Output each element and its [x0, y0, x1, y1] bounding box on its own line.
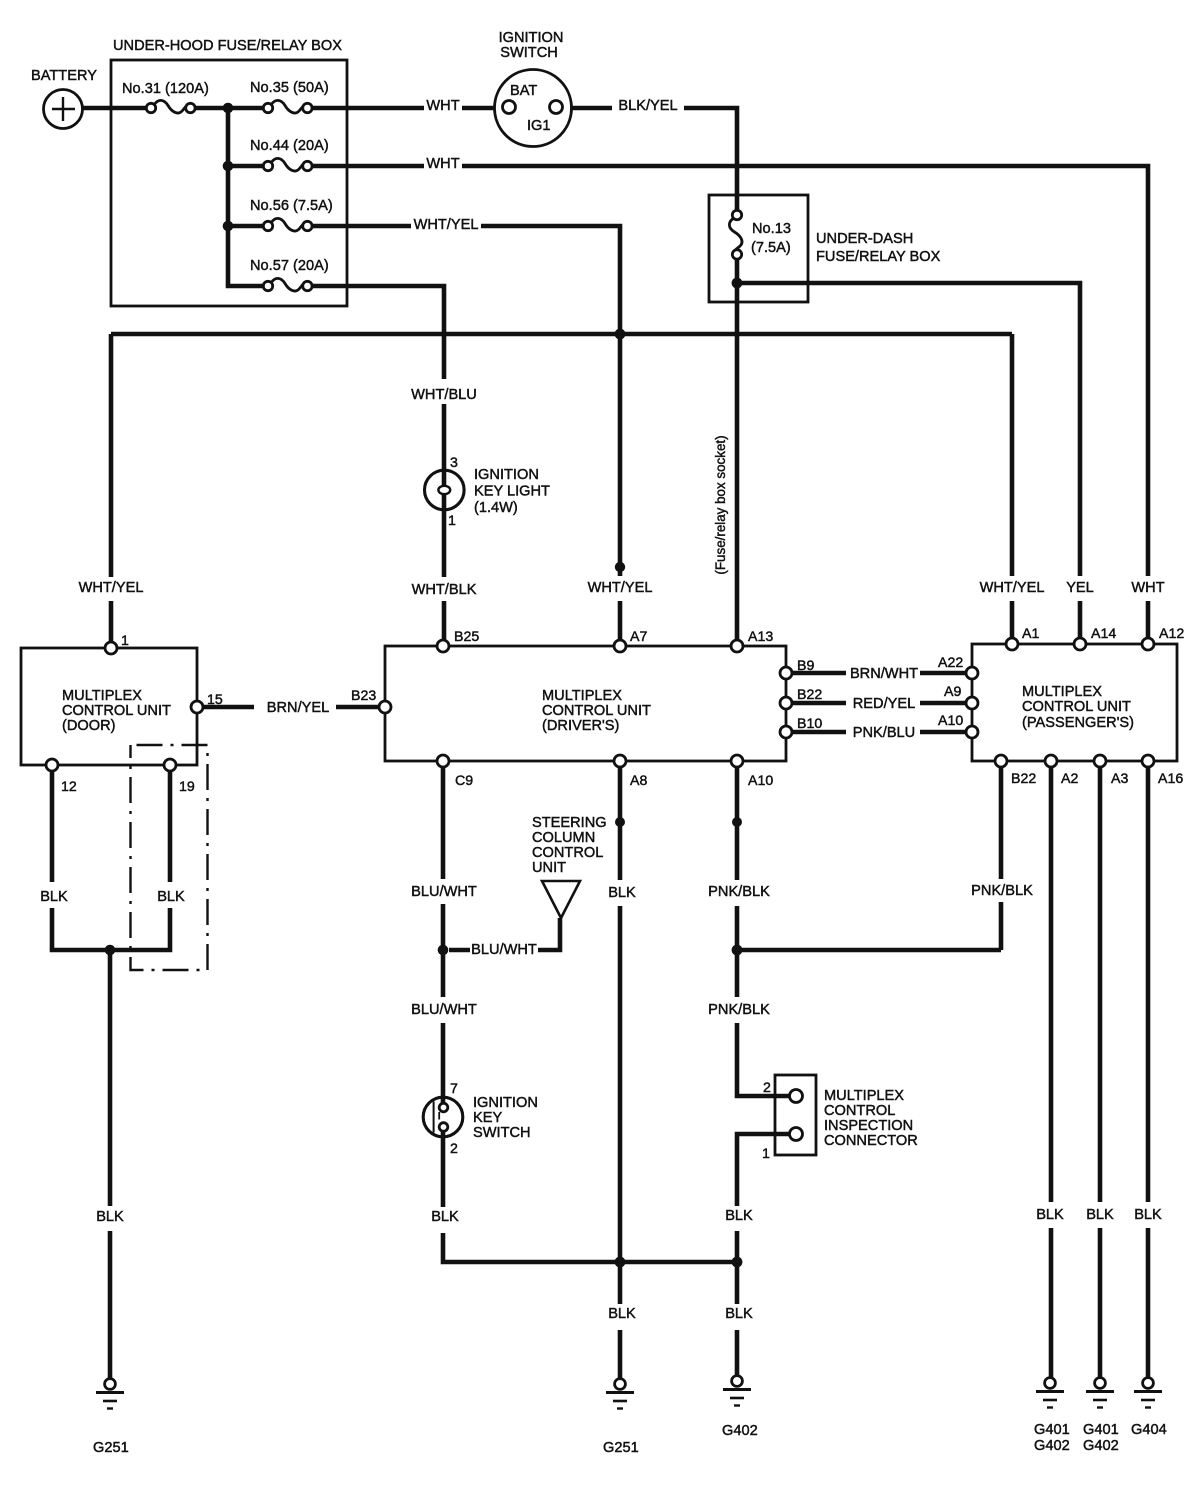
- svg-text:PNK/BLK: PNK/BLK: [708, 884, 770, 900]
- svg-text:12: 12: [61, 779, 77, 795]
- svg-text:A13: A13: [748, 629, 773, 645]
- svg-text:G402: G402: [1083, 1438, 1119, 1454]
- svg-text:No.44 (20A): No.44 (20A): [250, 138, 329, 154]
- svg-text:No.56 (7.5A): No.56 (7.5A): [250, 198, 333, 214]
- svg-text:No.35 (50A): No.35 (50A): [250, 80, 329, 96]
- svg-text:BLK: BLK: [608, 1306, 636, 1322]
- svg-text:KEY: KEY: [473, 1110, 502, 1126]
- svg-text:WHT/YEL: WHT/YEL: [79, 580, 144, 596]
- svg-text:STEERING: STEERING: [532, 815, 607, 831]
- svg-text:UNDER-HOOD FUSE/RELAY BOX: UNDER-HOOD FUSE/RELAY BOX: [113, 38, 342, 54]
- svg-text:IGNITION: IGNITION: [473, 1095, 538, 1111]
- svg-text:G401: G401: [1034, 1422, 1070, 1438]
- svg-text:No.57 (20A): No.57 (20A): [250, 258, 329, 274]
- svg-text:PNK/BLK: PNK/BLK: [971, 883, 1033, 899]
- svg-text:A16: A16: [1158, 771, 1183, 787]
- svg-text:MULTIPLEX: MULTIPLEX: [1022, 684, 1102, 700]
- svg-text:CONTROL UNIT: CONTROL UNIT: [1022, 699, 1131, 715]
- svg-text:2: 2: [763, 1080, 771, 1096]
- svg-text:UNDER-DASH: UNDER-DASH: [816, 231, 913, 247]
- svg-text:PNK/BLU: PNK/BLU: [853, 725, 915, 741]
- svg-text:WHT/YEL: WHT/YEL: [980, 580, 1045, 596]
- svg-text:BLK: BLK: [608, 885, 636, 901]
- svg-text:A1: A1: [1022, 626, 1039, 642]
- svg-text:G251: G251: [603, 1440, 639, 1456]
- svg-text:CONTROL: CONTROL: [532, 845, 603, 861]
- svg-text:BRN/YEL: BRN/YEL: [267, 700, 329, 716]
- svg-text:CONTROL UNIT: CONTROL UNIT: [542, 703, 651, 719]
- svg-text:WHT: WHT: [1131, 580, 1164, 596]
- svg-text:B22: B22: [797, 687, 822, 703]
- svg-text:CONTROL: CONTROL: [824, 1103, 895, 1119]
- svg-text:BLU/WHT: BLU/WHT: [411, 1002, 477, 1018]
- svg-text:BLU/WHT: BLU/WHT: [471, 942, 537, 958]
- svg-text:B25: B25: [454, 629, 479, 645]
- svg-text:1: 1: [448, 513, 456, 529]
- svg-text:C9: C9: [455, 773, 473, 789]
- svg-text:CONNECTOR: CONNECTOR: [824, 1133, 918, 1149]
- svg-text:MULTIPLEX: MULTIPLEX: [542, 688, 622, 704]
- svg-text:SWITCH: SWITCH: [473, 1125, 531, 1141]
- svg-text:BRN/WHT: BRN/WHT: [850, 666, 918, 682]
- svg-text:B22: B22: [1011, 771, 1036, 787]
- svg-text:3: 3: [450, 455, 458, 471]
- svg-text:A22: A22: [938, 655, 963, 671]
- svg-text:COLUMN: COLUMN: [532, 830, 595, 846]
- svg-text:INSPECTION: INSPECTION: [824, 1118, 913, 1134]
- svg-text:WHT/YEL: WHT/YEL: [414, 217, 479, 233]
- svg-text:A14: A14: [1091, 626, 1116, 642]
- svg-text:MULTIPLEX: MULTIPLEX: [62, 688, 142, 704]
- svg-text:BLK: BLK: [1134, 1207, 1162, 1223]
- svg-text:G404: G404: [1131, 1422, 1167, 1438]
- svg-text:BLK: BLK: [157, 889, 185, 905]
- svg-text:BLK: BLK: [1086, 1207, 1114, 1223]
- svg-text:BLU/WHT: BLU/WHT: [411, 884, 477, 900]
- svg-text:BLK: BLK: [431, 1209, 459, 1225]
- svg-text:(DRIVER'S): (DRIVER'S): [542, 718, 619, 734]
- svg-text:G251: G251: [93, 1440, 129, 1456]
- svg-text:(1.4W): (1.4W): [474, 500, 518, 516]
- svg-text:SWITCH: SWITCH: [500, 45, 558, 61]
- svg-text:15: 15: [207, 692, 223, 708]
- svg-text:UNIT: UNIT: [532, 860, 566, 876]
- svg-text:A7: A7: [630, 629, 647, 645]
- svg-text:19: 19: [179, 779, 195, 795]
- svg-text:2: 2: [450, 1141, 458, 1157]
- svg-text:BLK: BLK: [1036, 1207, 1064, 1223]
- svg-text:(PASSENGER'S): (PASSENGER'S): [1022, 715, 1134, 731]
- svg-text:G402: G402: [722, 1423, 758, 1439]
- svg-text:WHT/YEL: WHT/YEL: [588, 580, 653, 596]
- svg-text:BATTERY: BATTERY: [31, 68, 97, 84]
- svg-text:MULTIPLEX: MULTIPLEX: [824, 1088, 904, 1104]
- svg-text:WHT/BLU: WHT/BLU: [411, 387, 477, 403]
- svg-text:WHT/BLK: WHT/BLK: [412, 582, 477, 598]
- svg-text:A2: A2: [1061, 771, 1078, 787]
- svg-text:IGNITION: IGNITION: [499, 30, 564, 46]
- svg-text:RED/YEL: RED/YEL: [853, 696, 915, 712]
- svg-text:CONTROL UNIT: CONTROL UNIT: [62, 703, 171, 719]
- svg-text:A8: A8: [630, 773, 647, 789]
- svg-text:A9: A9: [944, 684, 961, 700]
- svg-text:G401: G401: [1083, 1422, 1119, 1438]
- svg-text:No.13: No.13: [752, 221, 791, 237]
- svg-text:(Fuse/relay box socket): (Fuse/relay box socket): [713, 435, 728, 574]
- svg-text:No.31 (120A): No.31 (120A): [122, 81, 209, 97]
- svg-text:1: 1: [762, 1146, 770, 1162]
- svg-text:BAT: BAT: [510, 83, 537, 99]
- svg-text:BLK: BLK: [725, 1208, 753, 1224]
- svg-text:B23: B23: [351, 688, 376, 704]
- svg-text:A12: A12: [1159, 626, 1184, 642]
- svg-text:WHT: WHT: [426, 98, 459, 114]
- svg-text:7: 7: [450, 1081, 458, 1097]
- svg-text:B9: B9: [797, 658, 814, 674]
- svg-text:(7.5A): (7.5A): [751, 240, 791, 256]
- svg-text:BLK: BLK: [96, 1209, 124, 1225]
- svg-text:PNK/BLK: PNK/BLK: [708, 1002, 770, 1018]
- svg-text:KEY LIGHT: KEY LIGHT: [474, 484, 550, 500]
- svg-text:YEL: YEL: [1066, 580, 1094, 596]
- svg-text:A10: A10: [748, 773, 773, 789]
- svg-text:B10: B10: [797, 716, 822, 732]
- svg-text:FUSE/RELAY BOX: FUSE/RELAY BOX: [816, 249, 941, 265]
- svg-text:A10: A10: [938, 713, 963, 729]
- svg-text:1: 1: [121, 633, 129, 649]
- svg-text:(DOOR): (DOOR): [62, 718, 116, 734]
- svg-text:WHT: WHT: [426, 156, 459, 172]
- svg-text:BLK/YEL: BLK/YEL: [618, 98, 677, 114]
- svg-text:BLK: BLK: [40, 889, 68, 905]
- svg-text:A3: A3: [1111, 771, 1128, 787]
- svg-text:IGNITION: IGNITION: [474, 467, 539, 483]
- svg-text:IG1: IG1: [527, 118, 551, 134]
- svg-text:G402: G402: [1034, 1438, 1070, 1454]
- svg-text:BLK: BLK: [725, 1306, 753, 1322]
